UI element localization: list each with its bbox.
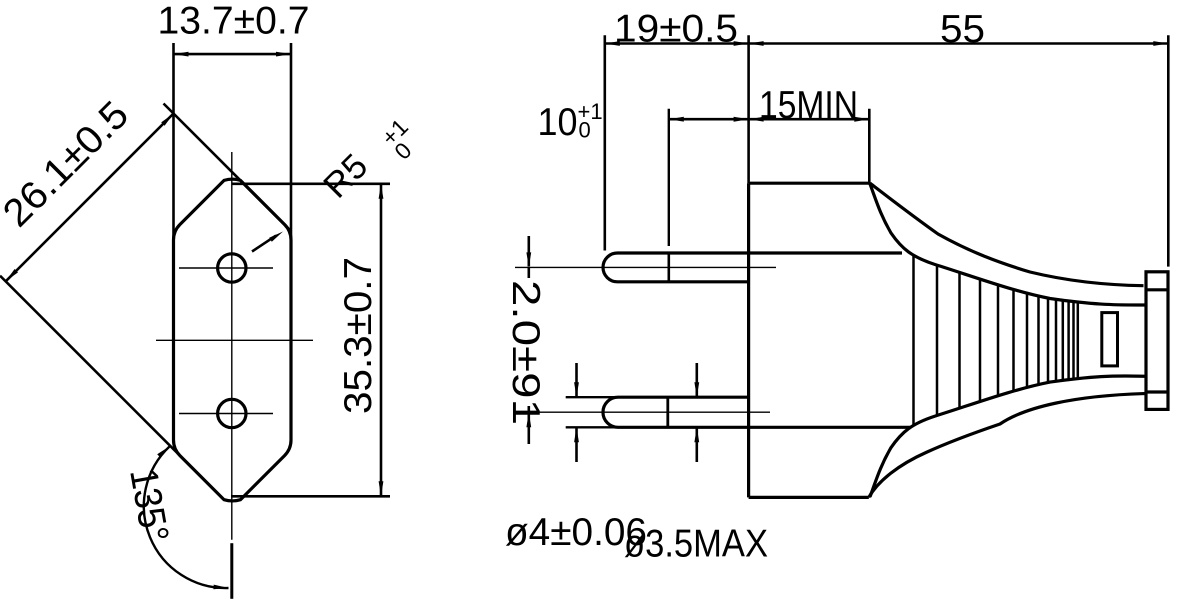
135 degree arc bbox=[144, 446, 229, 588]
bottom pin centerline bbox=[515, 411, 770, 413]
extension line top (35.3) from apex bbox=[232, 183, 390, 186]
dimension line 10 bbox=[669, 118, 749, 121]
boot lower lip line bbox=[1146, 390, 1168, 393]
top pin outline bbox=[603, 253, 902, 282]
svg-text:15MIN: 15MIN bbox=[759, 84, 858, 127]
grip rib 8 bbox=[1037, 297, 1040, 385]
grip rib 6 bbox=[1012, 290, 1015, 391]
extension line right (13.7) bbox=[290, 43, 293, 247]
grip rib 9 bbox=[1047, 299, 1050, 383]
dimension line 26.1 (45 deg) bbox=[6, 114, 174, 282]
body bottom edge bbox=[749, 496, 869, 499]
bottom pin outline bbox=[603, 397, 910, 427]
neck outer bottom curve bbox=[869, 394, 1146, 498]
extension line face (19±0.5 / 55) bbox=[747, 35, 750, 183]
upper hole crosshair bbox=[179, 267, 273, 269]
svg-text:0: 0 bbox=[579, 118, 591, 143]
dimension line 19±0.5 bbox=[605, 42, 749, 45]
svg-text:ø3.5MAX: ø3.5MAX bbox=[624, 523, 768, 566]
dimension line 15MIN bbox=[749, 118, 870, 121]
cable boot outline bbox=[1146, 272, 1168, 410]
grip rib 11 bbox=[1062, 301, 1065, 380]
grip rib 2 bbox=[936, 266, 939, 415]
grip rib 12 bbox=[1067, 302, 1070, 380]
svg-text:13.7±0.7: 13.7±0.7 bbox=[158, 0, 310, 43]
grip rib 10 bbox=[1055, 300, 1058, 381]
dimension line 13.7 bbox=[174, 53, 292, 56]
grip rib 7 bbox=[1026, 294, 1029, 387]
extension line left (13.7) bbox=[172, 43, 175, 247]
neck inner bottom curve bbox=[870, 376, 1146, 497]
extension line pin tip (19±0.5) bbox=[603, 35, 606, 250]
neck outer top curve bbox=[870, 183, 1144, 286]
dia4 arrow lower-right bbox=[695, 428, 698, 462]
dimension line 55 bbox=[749, 42, 1169, 45]
body top edge bbox=[749, 182, 870, 185]
dimension line 19±0.2 vertical bbox=[527, 267, 530, 412]
extension line bottom (35.3) from bottom vertex bbox=[231, 495, 390, 498]
neck inner top curve bbox=[870, 184, 1146, 305]
top pin sleeve tick / extension of dim 10 bbox=[668, 109, 670, 246]
boot upper lip line bbox=[1146, 288, 1168, 291]
svg-text:55: 55 bbox=[940, 8, 985, 51]
extension line rear (55) bbox=[1167, 35, 1170, 266]
body front face line bbox=[747, 183, 750, 497]
grip rib 1 bbox=[912, 256, 915, 425]
svg-text:35.3±0.7: 35.3±0.7 bbox=[337, 257, 380, 414]
lower hole crosshair bbox=[179, 413, 273, 415]
angle leg: bold vertical segment below bottom vertex bbox=[230, 543, 233, 599]
outside arrow below (19±0.2) bbox=[527, 413, 530, 444]
upper pin hole bbox=[218, 254, 246, 282]
vertical centerline of face bbox=[231, 152, 233, 540]
grip rib 14 bbox=[1077, 303, 1080, 378]
dia4 arrow lower-left bbox=[575, 428, 578, 462]
svg-text:19±0.5: 19±0.5 bbox=[614, 8, 738, 51]
extension line along lower-left edge (26.1) bbox=[0, 276, 178, 454]
svg-text:2.0±91: 2.0±91 bbox=[504, 280, 547, 425]
grip rib 13 bbox=[1072, 302, 1075, 378]
plug face outline (hexagonal pin-face) bbox=[174, 179, 292, 501]
dia4 arrow upper-right bbox=[695, 363, 698, 396]
bottom pin sleeve tick bbox=[666, 397, 669, 427]
extension line along upper-right edge (26.1) bbox=[164, 104, 290, 230]
white gap for rotated text bbox=[512, 278, 545, 406]
grip rib 3 bbox=[958, 273, 961, 408]
svg-text:10: 10 bbox=[538, 101, 578, 144]
leader arrow to R5 corner bbox=[252, 236, 276, 252]
cable exit hole bbox=[1102, 313, 1118, 366]
top pin centerline bbox=[515, 266, 776, 268]
grip rib 5 bbox=[997, 285, 1000, 395]
horizontal mid centerline of face bbox=[156, 339, 313, 341]
grip rib 4 bbox=[979, 280, 982, 401]
dia4 arrow upper-left bbox=[575, 363, 578, 396]
lower pin hole bbox=[218, 399, 246, 427]
bottom pin edge extension stubs (dia 4) bbox=[566, 396, 618, 398]
outside arrow above (19±0.2) bbox=[527, 236, 530, 266]
extension line 15MIN right bbox=[868, 109, 871, 183]
dimension line 35.3 vertical bbox=[380, 184, 383, 497]
